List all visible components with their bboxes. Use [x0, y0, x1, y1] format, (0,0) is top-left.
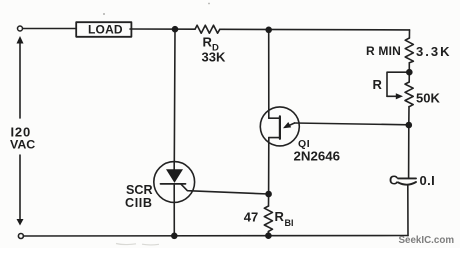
svg-text:R MIN: R MIN: [366, 44, 401, 58]
svg-text:CIIB: CIIB: [125, 196, 153, 210]
svg-text:BI: BI: [285, 218, 294, 228]
svg-text:47: 47: [244, 210, 258, 225]
svg-text:C: C: [389, 172, 399, 187]
svg-text:SeekIC.com: SeekIC.com: [399, 235, 455, 246]
svg-text:0.I: 0.I: [420, 173, 436, 188]
svg-text:SCR: SCR: [126, 183, 153, 197]
svg-text:R: R: [373, 77, 383, 92]
svg-text:3.3K: 3.3K: [416, 44, 451, 59]
svg-text:R: R: [203, 35, 213, 50]
svg-text:50K: 50K: [416, 91, 440, 106]
svg-text:33K: 33K: [202, 50, 226, 65]
svg-text:2N2646: 2N2646: [294, 148, 341, 163]
svg-text:R: R: [275, 209, 285, 224]
svg-text:LOAD: LOAD: [88, 23, 123, 37]
svg-text:VAC: VAC: [10, 138, 35, 152]
